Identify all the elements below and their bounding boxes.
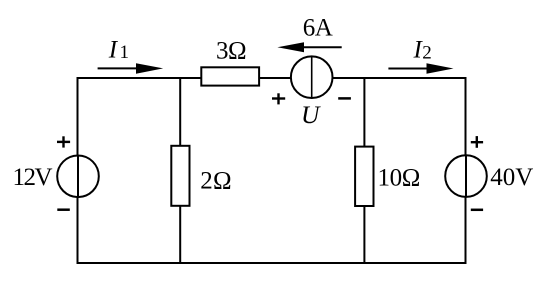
svg-text:3Ω: 3Ω [216,37,246,64]
svg-text:U: U [301,100,321,129]
svg-text:40V: 40V [490,164,533,191]
svg-text:2Ω: 2Ω [200,168,231,195]
svg-text:1: 1 [120,42,130,63]
svg-text:10Ω: 10Ω [378,165,420,192]
svg-text:2: 2 [422,43,432,64]
svg-text:12V: 12V [13,164,53,191]
svg-text:6A: 6A [303,15,333,42]
